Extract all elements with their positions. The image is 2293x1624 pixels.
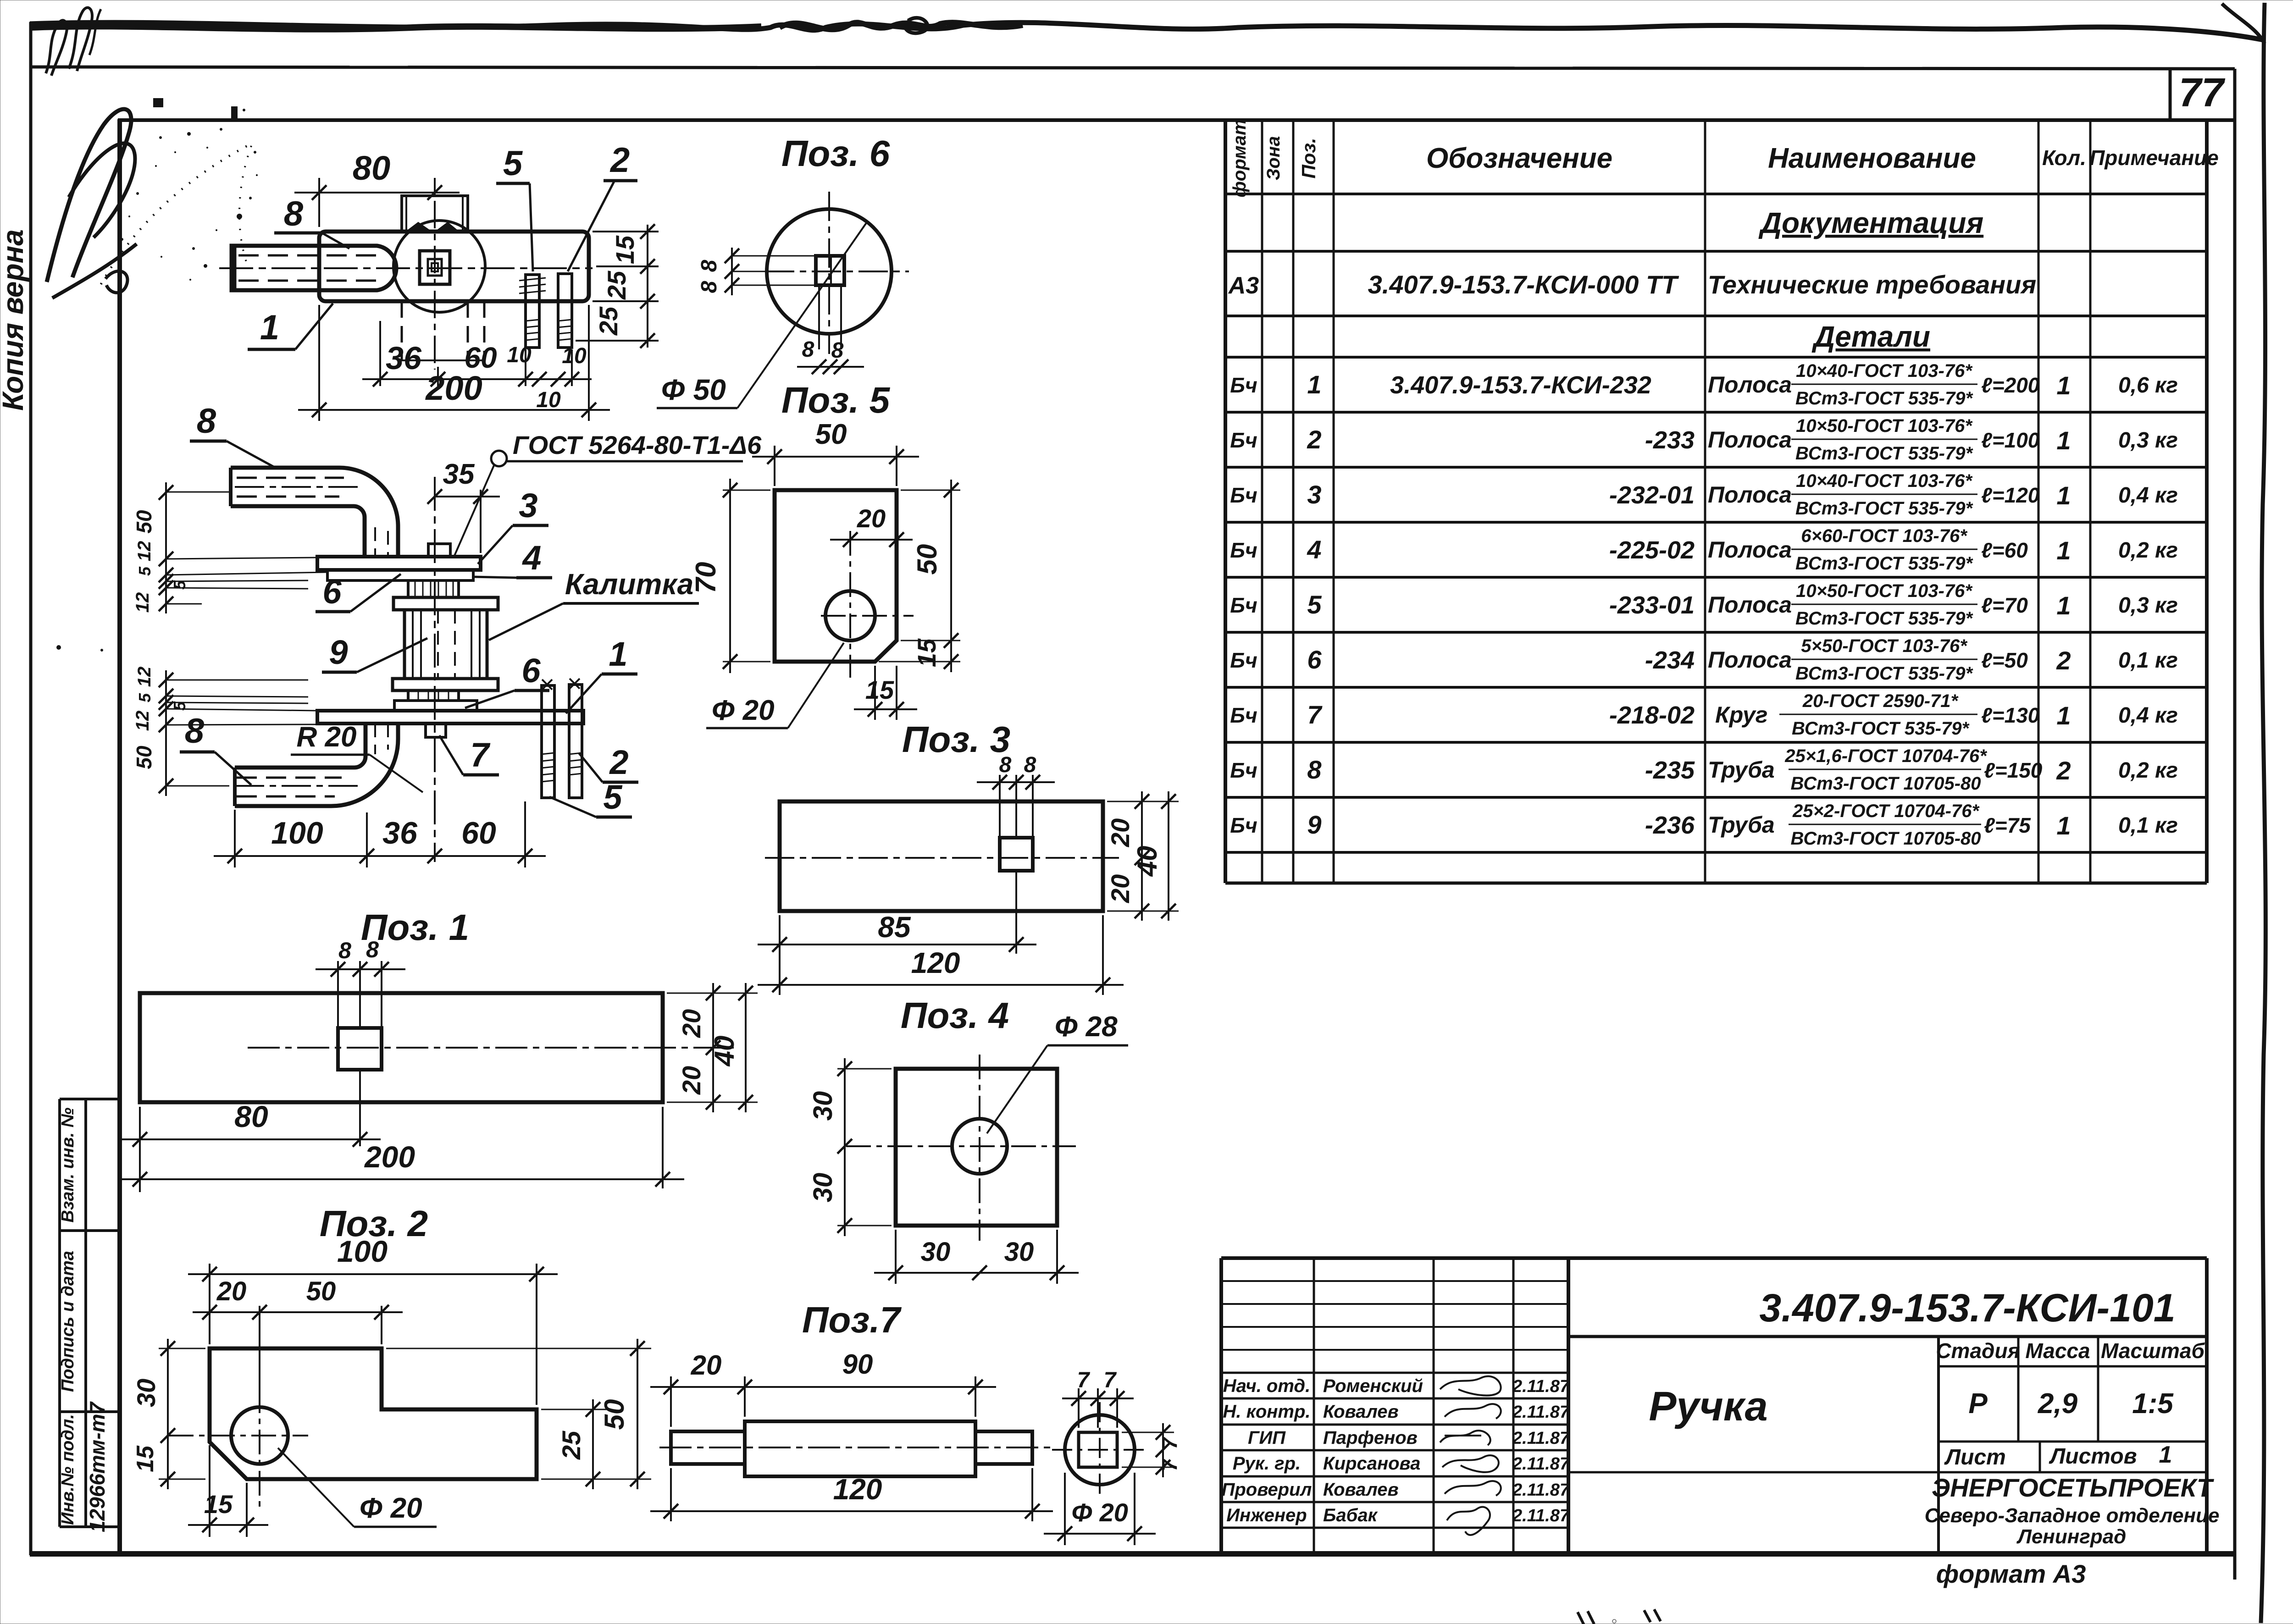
svg-text:8: 8 [1024,753,1036,777]
row 4 [1230,526,2178,574]
svg-text:Копия верна: Копия верна [0,229,29,411]
svg-text:2: 2 [609,141,630,180]
svg-text:10×40-ГОСТ 103-76*: 10×40-ГОСТ 103-76* [1796,361,1973,381]
barrel tube Поз.9 [404,610,487,679]
svg-text:10: 10 [507,343,532,367]
row 6 [1230,636,2178,684]
dimension 80 [294,149,460,227]
svg-text:Труба: Труба [1708,812,1775,838]
svg-text:1: 1 [2056,536,2071,565]
svg-text:Инженер: Инженер [1226,1505,1307,1525]
dims 50 25 right [386,1339,651,1489]
svg-text:1: 1 [2056,481,2071,510]
svg-text:Масштаб: Масштаб [2101,1339,2205,1363]
svg-text:1: 1 [609,635,627,673]
svg-text:ВСт3-ГОСТ 535-79*: ВСт3-ГОСТ 535-79* [1795,553,1974,574]
svg-text:ℓ=150: ℓ=150 [1984,758,2043,782]
svg-text:1: 1 [2056,426,2071,455]
label Калитка (gate) [489,568,699,640]
svg-text:50: 50 [132,510,156,534]
svg-text:2: 2 [2056,646,2071,675]
svg-text:1: 1 [2056,701,2071,730]
sheet outer border top [30,67,2235,69]
svg-text:Поз.7: Поз.7 [802,1299,902,1340]
hole projection lines [818,285,820,349]
svg-text:ℓ=70: ℓ=70 [1981,593,2028,617]
svg-text:Φ 28: Φ 28 [1054,1011,1118,1043]
svg-text:5: 5 [170,701,189,711]
washer plate below top flange [327,570,473,580]
svg-text:ВСт3-ГОСТ 535-79*: ВСт3-ГОСТ 535-79* [1795,443,1974,464]
label Ф20 [706,643,844,728]
svg-text:Документация: Документация [1758,206,1983,239]
svg-text:6×60-ГОСТ 103-76*: 6×60-ГОСТ 103-76* [1801,526,1968,546]
bar outline [140,993,663,1102]
dims 80 200 bottom [118,1070,684,1192]
svg-text:Бабак: Бабак [1323,1505,1378,1525]
svg-text:60: 60 [461,816,496,851]
svg-text:8: 8 [284,194,304,233]
leader 6 lower [465,652,549,708]
svg-text:4: 4 [521,539,541,577]
svg-text:Кирсанова: Кирсанова [1323,1453,1420,1474]
svg-text:85: 85 [878,911,911,944]
svg-text:Поз. 4: Поз. 4 [901,995,1009,1036]
svg-text:Φ 50: Φ 50 [661,373,726,406]
svg-text:6: 6 [1307,645,1322,674]
square hole nested squares [420,251,450,284]
svg-text:1:5: 1:5 [2132,1388,2174,1420]
svg-text:Кол.: Кол. [2042,146,2086,170]
svg-text:20-ГОСТ 2590-71*: 20-ГОСТ 2590-71* [1802,691,1959,711]
svg-text:Полоса: Полоса [1708,537,1792,563]
leader 1 (bottom bar) [566,635,637,713]
svg-text:2: 2 [2056,756,2071,785]
svg-text:77: 77 [2179,70,2226,115]
svg-text:ВСт3-ГОСТ 10705-80: ВСт3-ГОСТ 10705-80 [1791,773,1981,794]
svg-text:30: 30 [132,1379,161,1407]
svg-text:1: 1 [260,308,279,347]
tube Поз.8 upper [231,468,398,557]
dim 70 left [690,479,770,673]
shaft centreline [659,1447,1051,1448]
dimension 200 [298,305,610,421]
flange Поз.3 top plate [317,557,481,570]
dimension chain 36 60 10 10 [362,321,592,412]
svg-text:35: 35 [443,458,475,490]
dims 20 50 [193,1276,403,1403]
svg-text:R 20: R 20 [297,721,357,753]
svg-text:5: 5 [135,693,154,702]
left margin strip cells [58,1099,61,1527]
assembly centreline [434,477,436,862]
svg-text:формат: формат [1230,119,1250,197]
svg-text:Поз.: Поз. [1298,138,1319,179]
svg-text:5: 5 [170,580,189,590]
svg-text:30: 30 [921,1237,951,1267]
svg-text:10: 10 [562,344,587,368]
tube Поз.8 plan (handle grip) [232,246,396,290]
svg-text:3.407.9-153.7-КСИ-101: 3.407.9-153.7-КСИ-101 [1759,1286,2175,1330]
svg-text:Бч: Бч [1230,648,1257,672]
svg-text:ГИП: ГИП [1248,1428,1286,1448]
table horizontals [1225,193,2207,195]
svg-text:Круг: Круг [1715,702,1767,728]
svg-text:12: 12 [133,711,153,731]
lower collar [393,679,498,690]
svg-text:Бч: Бч [1230,703,1257,727]
leader 1 (bar) [248,304,333,349]
svg-text:Наименование: Наименование [1768,143,1976,174]
scan artifact: stamp speckles [56,98,258,652]
svg-text:Бч: Бч [1230,428,1257,452]
svg-text:Листов: Листов [2049,1444,2137,1469]
dim 90 [745,1349,996,1417]
svg-text:20: 20 [677,1009,706,1038]
svg-text:8: 8 [366,937,379,962]
svg-text:40: 40 [709,1036,740,1067]
svg-text:ГОСТ 5264-80-Т1-Δ6: ГОСТ 5264-80-Т1-Δ6 [513,431,762,459]
svg-text:0,3 кг: 0,3 кг [2118,428,2178,453]
svg-text:15: 15 [912,638,941,667]
leader 2 (stud lower) [579,743,638,782]
svg-text:8: 8 [338,938,351,963]
handwriting: big signature [47,109,131,282]
axis of upper tube [166,492,229,493]
svg-text:80: 80 [353,149,390,187]
sheet outer border right / frame right [2233,69,2237,1580]
svg-text:20: 20 [857,504,886,533]
stud Поз.5 side [542,679,554,798]
svg-text:9: 9 [1307,810,1321,839]
svg-text:5: 5 [603,778,623,816]
svg-text:1: 1 [2056,371,2071,400]
svg-text:Поз. 5: Поз. 5 [781,380,891,420]
dims 8 8 below hole [797,337,864,374]
svg-text:7: 7 [1104,1368,1117,1392]
dims 50 / 15 right [879,480,960,672]
svg-text:8: 8 [1307,755,1322,784]
svg-text:Нач. отд.: Нач. отд. [1223,1376,1310,1396]
square end 7x7 [1079,1432,1117,1467]
lower washer plate [394,701,477,711]
svg-text:30: 30 [808,1091,838,1121]
svg-text:15: 15 [610,235,639,264]
svg-text:0,4 кг: 0,4 кг [2118,483,2178,508]
svg-text:7: 7 [1158,1458,1181,1471]
svg-text:2,9: 2,9 [2038,1388,2078,1420]
svg-text:-233-01: -233-01 [1609,591,1695,619]
svg-text:8: 8 [831,338,844,363]
bottom dimension chain 100 36 60 [214,801,546,867]
drawing frame top line [118,118,2235,122]
svg-text:25×2-ГОСТ 10704-76*: 25×2-ГОСТ 10704-76* [1792,801,1980,821]
end view centrelines [1099,1402,1101,1497]
hole Ф20 [825,591,875,641]
table verticals [1224,120,1227,883]
svg-text:Лист: Лист [1944,1445,2006,1469]
svg-text:Ленинград: Ленинград [2016,1525,2127,1548]
leader 8 (tube) [274,194,349,249]
upper neck (threaded) [408,580,459,597]
label Ф50 [657,221,868,408]
svg-text:ℓ=200: ℓ=200 [1981,373,2040,397]
radius R20 [291,721,423,792]
svg-text:Бч: Бч [1230,538,1257,562]
svg-text:Примечание: Примечание [2089,146,2219,170]
square hole 8x8 [1000,838,1033,871]
svg-text:36: 36 [386,340,422,376]
svg-text:100: 100 [271,816,323,851]
sheet bottom border [30,1551,2235,1557]
svg-text:8: 8 [697,281,721,293]
svg-text:8: 8 [197,402,216,441]
svg-text:Парфенов: Парфенов [1323,1428,1418,1448]
leader 6 upper [316,573,401,612]
svg-text:ℓ=130: ℓ=130 [1981,703,2040,727]
square hole 8x8 [338,1028,382,1070]
svg-text:Зона: Зона [1263,136,1284,181]
left dimension chain upper: 50 12 5 5 12 [132,482,327,613]
svg-text:ЭНЕРГОСЕТЬПРОЕКТ: ЭНЕРГОСЕТЬПРОЕКТ [1932,1473,2215,1502]
svg-text:ВСт3-ГОСТ 535-79*: ВСт3-ГОСТ 535-79* [1795,608,1974,629]
svg-text:2.11.87: 2.11.87 [1512,1429,1570,1448]
row 5 [1230,581,2178,629]
stray handwriting marks below title block [1578,1611,1594,1624]
svg-text:25×1,6-ГОСТ 10704-76*: 25×1,6-ГОСТ 10704-76* [1784,746,1988,766]
svg-text:8: 8 [185,712,205,751]
svg-text:90: 90 [842,1349,873,1380]
svg-text:Бч: Бч [1230,593,1257,617]
svg-text:Обозначение: Обозначение [1426,143,1612,174]
svg-text:3.407.9-153.7-КСИ-000 ТТ: 3.407.9-153.7-КСИ-000 ТТ [1368,270,1680,299]
svg-text:7: 7 [1307,700,1323,729]
svg-text:Бч: Бч [1230,813,1257,837]
centreline [248,1047,734,1049]
row 9 [1230,801,2178,849]
sheet outer border left [29,22,33,1555]
svg-text:25: 25 [594,306,623,336]
svg-text:5: 5 [1307,590,1322,619]
svg-text:Рук. гр.: Рук. гр. [1233,1453,1301,1474]
dims 30 30 bottom [874,1230,1079,1284]
dim 20 [650,1350,765,1427]
signature rows [1222,1376,1423,1525]
svg-text:Роменский: Роменский [1323,1376,1423,1396]
dims 30 30 left [808,1058,892,1236]
svg-text:120: 120 [911,946,960,979]
upper collar [393,597,498,610]
centrelines [849,531,851,678]
svg-text:Полоса: Полоса [1708,427,1792,453]
svg-text:2.11.87: 2.11.87 [1512,1506,1570,1525]
row 3 [1230,471,2178,519]
svg-text:15: 15 [132,1445,159,1472]
leader 2 (stud) [568,141,637,271]
svg-text:Бч: Бч [1230,373,1257,397]
svg-text:50: 50 [306,1276,336,1306]
svg-text:12: 12 [133,592,153,613]
svg-text:4: 4 [1307,535,1321,564]
svg-text:50: 50 [815,419,847,450]
svg-text:12966тм-т7: 12966тм-т7 [85,1401,109,1532]
centrelines [259,1388,260,1508]
svg-text:0,4 кг: 0,4 кг [2118,703,2178,728]
svg-text:120: 120 [833,1473,882,1506]
stud Поз.5 plan [558,274,572,348]
svg-text:2.11.87: 2.11.87 [1512,1480,1570,1500]
svg-text:15: 15 [865,675,894,704]
row 8 [1230,746,2178,794]
svg-text:2.11.87: 2.11.87 [1512,1454,1570,1474]
svg-text:100: 100 [337,1234,388,1268]
stud Поз.2 plan [519,275,546,348]
dim 15 bottom [854,666,917,720]
plate outline [210,1348,537,1479]
scan artifact: top torn edge line [30,22,2265,40]
dim 20 [830,504,913,550]
handwriting: small notes top-left [46,20,67,76]
svg-text:9: 9 [329,633,348,671]
svg-text:ВСт3-ГОСТ 535-79*: ВСт3-ГОСТ 535-79* [1795,663,1974,684]
centrelines [979,1055,980,1241]
svg-text:60: 60 [464,341,497,374]
leader 4 (washer) [472,539,552,578]
svg-text:Стадия: Стадия [1936,1339,2020,1363]
svg-text:2: 2 [609,743,628,781]
row 1 [1230,361,2178,409]
svg-text:ВСт3-ГОСТ 535-79*: ВСт3-ГОСТ 535-79* [1792,718,1970,739]
leader 8 lower tube [180,712,251,785]
svg-text:15: 15 [204,1490,233,1519]
centreline [765,857,1119,859]
svg-text:-218-02: -218-02 [1609,702,1695,729]
svg-text:5: 5 [503,144,523,183]
handwritten signatures [1440,1376,1501,1535]
svg-text:Полоса: Полоса [1708,482,1792,508]
hole projection lines up [337,961,339,1028]
svg-text:Φ 20: Φ 20 [1071,1498,1128,1527]
svg-text:7: 7 [1077,1368,1091,1392]
dims 8 8 top [316,937,405,977]
svg-text:30: 30 [1004,1237,1034,1267]
label Ф28 [987,1011,1128,1133]
leader 5 (stud lower) [549,778,632,817]
svg-text:1: 1 [2056,591,2071,620]
svg-text:50: 50 [912,544,942,575]
svg-text:ℓ=75: ℓ=75 [1984,813,2031,837]
svg-text:50: 50 [132,746,156,769]
svg-text:10×50-ГОСТ 103-76*: 10×50-ГОСТ 103-76* [1796,581,1973,601]
svg-text:12: 12 [134,541,155,562]
hole Ф28 [952,1119,1007,1174]
svg-text:3: 3 [1307,480,1321,509]
dims 8 8 top [977,753,1055,790]
svg-text:Инв.№ подл.: Инв.№ подл. [58,1414,78,1525]
svg-text:Масса: Масса [2025,1339,2090,1363]
svg-text:0,3 кг: 0,3 кг [2118,593,2178,618]
svg-text:5: 5 [135,566,154,576]
svg-text:Ковалев: Ковалев [1323,1402,1399,1422]
dims 7 7 right [1122,1423,1181,1477]
leader 3 (top flange) [478,486,548,564]
lower neck [408,690,459,701]
svg-text:10×50-ГОСТ 103-76*: 10×50-ГОСТ 103-76* [1796,416,1973,436]
svg-text:Полоса: Полоса [1708,372,1792,398]
svg-text:40: 40 [1132,846,1163,877]
svg-text:20: 20 [677,1066,706,1095]
bar Поз.1 plan outline [319,232,589,301]
svg-text:8: 8 [999,753,1012,777]
svg-text:1: 1 [2056,811,2071,840]
svg-text:1: 1 [1307,370,1321,399]
dims 8 8 left of hole [697,248,816,295]
scan artifact: right torn edge [2261,3,2265,1623]
hidden lines below bar [402,301,484,360]
leader 7 (nut) [439,735,499,775]
svg-text:50: 50 [599,1399,630,1430]
svg-text:3: 3 [519,486,537,525]
svg-text:Детали: Детали [1811,320,1930,353]
hole Ф20 [231,1407,288,1464]
svg-text:0,1 кг: 0,1 кг [2118,813,2178,838]
tube Поз.8 lower [235,724,398,806]
svg-text:1: 1 [2159,1442,2172,1468]
dims 7 7 top [1062,1368,1134,1428]
row 2 [1230,416,2178,464]
svg-text:10×40-ГОСТ 103-76*: 10×40-ГОСТ 103-76* [1796,471,1973,491]
svg-text:ℓ=60: ℓ=60 [1981,538,2028,562]
svg-text:Труба: Труба [1708,757,1775,783]
leader 8 upper tube [190,402,277,469]
svg-text:Взам. инв. №: Взам. инв. № [58,1108,78,1223]
svg-text:Φ 20: Φ 20 [711,695,774,726]
svg-text:ℓ=120: ℓ=120 [1981,483,2040,507]
centreline of handle axis [219,267,593,269]
nut Поз.7 below bar [426,724,446,737]
svg-text:25: 25 [557,1431,586,1460]
svg-text:Северо-Западное отделение: Северо-Западное отделение [1925,1504,2220,1527]
svg-text:Бч: Бч [1230,483,1257,507]
ring outline [767,209,892,334]
svg-text:200: 200 [364,1140,415,1174]
svg-text:6: 6 [521,652,541,690]
svg-text:Ручка: Ручка [1649,1384,1767,1430]
svg-text:Проверил: Проверил [1222,1480,1312,1500]
svg-text:8: 8 [802,337,814,362]
svg-text:ВСт3-ГОСТ 535-79*: ВСт3-ГОСТ 535-79* [1795,498,1974,519]
svg-text:6: 6 [322,573,342,611]
dimension 35 [427,458,500,553]
ring Поз.6 seen as circle [393,221,485,312]
svg-text:-225-02: -225-02 [1609,536,1695,564]
left dimension chain lower: 12 5 5 12 50 [132,667,317,796]
page number box 77 [2169,70,2172,120]
leader 9 (barrel) [322,633,427,672]
plate Поз.6 edge above bar [402,196,468,232]
svg-text:3.407.9-153.7-КСИ-232: 3.407.9-153.7-КСИ-232 [1390,371,1651,399]
svg-text:0,2 кг: 0,2 кг [2118,538,2178,563]
svg-text:Поз. 3: Поз. 3 [902,719,1010,760]
svg-text:20: 20 [1106,818,1135,847]
bar Поз.1 bottom plate [317,711,583,724]
svg-text:-236: -236 [1645,812,1695,839]
svg-text:10: 10 [536,388,561,412]
svg-text:-234: -234 [1645,646,1695,674]
svg-text:20: 20 [216,1276,247,1306]
dim 100 top [188,1234,558,1405]
dim 50 top [752,419,919,486]
